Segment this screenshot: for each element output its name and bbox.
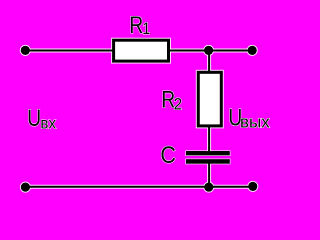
svg-text:U: U — [27, 104, 41, 132]
svg-text:вх: вх — [40, 115, 56, 132]
svg-text:вых: вых — [240, 112, 270, 131]
svg-text:R: R — [129, 11, 143, 39]
svg-text:1: 1 — [142, 20, 150, 38]
svg-text:C: C — [160, 141, 176, 168]
svg-text:2: 2 — [174, 95, 183, 114]
